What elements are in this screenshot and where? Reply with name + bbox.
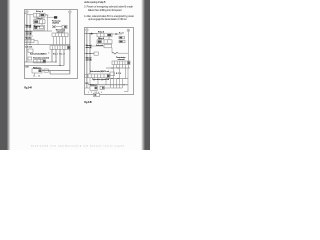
- wire: [112, 33, 122, 35]
- schematic 1 frame: [25, 10, 78, 79]
- svg-text:solenoid: solenoid: [57, 32, 65, 34]
- junction node: [56, 62, 57, 63]
- junction node: [118, 78, 119, 79]
- wire: [106, 78, 128, 80]
- wire: [27, 14, 33, 16]
- wire stub below box B: [34, 73, 36, 75]
- svg-text:26 - 30: 26 - 30: [33, 75, 40, 77]
- junction node: [118, 68, 119, 69]
- wire: [85, 33, 98, 35]
- resistor R2: [119, 36, 124, 39]
- wire relayB-ECU: [35, 24, 42, 25]
- relay C: [100, 86, 104, 89]
- connector J3: [25, 39, 34, 42]
- svg-text:?: ?: [48, 53, 49, 55]
- junction node: [112, 68, 113, 69]
- relay B coil block: [34, 21, 38, 23]
- svg-text:valve (A): valve (A): [86, 46, 92, 49]
- diode D2: [91, 33, 94, 35]
- junction node: [90, 53, 91, 54]
- relay B: [97, 40, 112, 44]
- relay A coil block: [41, 14, 45, 16]
- svg-text:Kickdown: Kickdown: [90, 85, 97, 87]
- coil L1: [112, 52, 118, 54]
- ECU inner block: [34, 26, 37, 29]
- wire: [29, 15, 31, 45]
- solenoid valve box: [90, 86, 98, 90]
- junction node: [56, 17, 57, 18]
- ECU U1: [34, 25, 45, 30]
- junction blob: [54, 16, 57, 18]
- diode D3: [116, 33, 119, 35]
- svg-text:Relay A: Relay A: [98, 31, 105, 34]
- right dark margin band: [141, 0, 150, 150]
- terminal center dot: [69, 11, 72, 14]
- relay A: [34, 13, 46, 17]
- wire grid lower right: [111, 68, 129, 92]
- connector J1b: [50, 46, 70, 50]
- wire: [89, 54, 91, 75]
- wire: [89, 34, 91, 54]
- aux box: [85, 74, 88, 77]
- terminal center dot: [86, 29, 89, 32]
- wire coil to right rail: [112, 48, 128, 53]
- terminal + (battery positive): [26, 11, 29, 14]
- solenoid box: [104, 44, 112, 48]
- sensor box: [94, 52, 98, 55]
- relay C inner: [102, 87, 104, 89]
- svg-text:valve (B): valve (B): [86, 59, 92, 61]
- wire relayA2-relayB2: [100, 37, 110, 40]
- svg-text:Fig. 2-44: Fig. 2-44: [24, 86, 32, 89]
- svg-text:Transmission control unit: Transmission control unit: [33, 57, 49, 60]
- wire relayB2-solenoid: [106, 43, 110, 46]
- switch S2: [28, 57, 32, 60]
- relay B: [34, 20, 46, 24]
- svg-text:Relay B: Relay B: [37, 18, 44, 20]
- left dark margin band: [0, 0, 11, 150]
- svg-text:up to engage the transmission: up to engage the transmission in OD rev.: [88, 17, 127, 21]
- svg-text:Solenoid valve (B) ECU unit: Solenoid valve (B) ECU unit: [90, 70, 109, 73]
- connector J1: [52, 33, 68, 37]
- terminal center dot: [26, 11, 29, 14]
- relay B coil block: [98, 40, 102, 42]
- svg-text:failure then shifting into 3rd: failure then shifting into 3rd speed: [88, 8, 122, 12]
- svg-text:Neutral sw: Neutral sw: [25, 37, 32, 40]
- svg-text:Solenoid valve (B) ECU: Solenoid valve (B) ECU: [30, 54, 47, 56]
- junction node: [112, 78, 113, 79]
- svg-text:Downloaded from www.Manualslib: Downloaded from www.Manualslib.com manua…: [31, 145, 125, 147]
- svg-text:Relay A: Relay A: [36, 10, 44, 13]
- connector J5 end cell: [107, 75, 109, 78]
- connector J5: [88, 74, 110, 78]
- svg-text:1 2 3 4 5: 1 2 3 4 5: [88, 92, 102, 94]
- relay A coil block: [107, 34, 111, 36]
- svg-text:ECU: ECU: [116, 73, 122, 75]
- ECU box U2: [110, 72, 115, 76]
- svg-text:Kickdown sw.: Kickdown sw.: [33, 67, 42, 69]
- wire: [45, 15, 54, 17]
- solenoid valve B inner: [39, 69, 42, 72]
- wire: [86, 31, 88, 88]
- svg-text:Engine: Engine: [34, 26, 40, 28]
- wire relay A right down: [45, 15, 48, 31]
- wire solenoid feed: [90, 45, 104, 47]
- pump box hanging on bottom border: [94, 93, 100, 96]
- diode D1: [52, 25, 55, 28]
- svg-text:2-3 shift: 2-3 shift: [25, 46, 32, 49]
- solenoid valve B: [32, 69, 42, 73]
- resistor R1: [62, 25, 67, 28]
- solenoid valve C: [44, 69, 48, 72]
- wire: [25, 49, 57, 62]
- wire box row stub: [34, 41, 38, 45]
- svg-text:Solenoid: Solenoid: [96, 45, 103, 47]
- wire: [54, 37, 66, 45]
- schematic 2 frame: [85, 28, 134, 95]
- svg-text:valve (B): valve (B): [25, 33, 32, 35]
- connector J1b end cell: [68, 46, 70, 49]
- relay A: [97, 33, 112, 37]
- svg-text:Fuel: Fuel: [119, 32, 125, 34]
- wire: [25, 35, 34, 37]
- svg-text:Relay B: Relay B: [98, 38, 105, 40]
- switch S1: [28, 49, 33, 52]
- svg-text:valve (A): valve (A): [25, 26, 31, 29]
- junction node: [124, 84, 125, 85]
- connector J4: [34, 60, 46, 63]
- wire: [25, 49, 65, 65]
- wire: [85, 53, 95, 55]
- wire: [106, 67, 130, 69]
- svg-text:Transmission control unit: Transmission control unit: [92, 78, 109, 81]
- wire: [85, 87, 111, 89]
- junction node: [60, 65, 61, 66]
- wire diode to R1: [56, 27, 65, 33]
- svg-text:solenoid: solenoid: [118, 59, 126, 61]
- solenoid valve box inner: [95, 87, 97, 89]
- wire: [25, 13, 27, 62]
- junction node: [90, 33, 91, 34]
- wire: [42, 13, 70, 74]
- svg-text:via the opening of relay B: via the opening of relay B: [84, 0, 106, 4]
- junction node: [86, 53, 87, 54]
- connector J4 end cell: [43, 60, 46, 62]
- wire: [114, 32, 129, 79]
- wire: [88, 84, 128, 86]
- wire J5 pins down: [90, 78, 106, 85]
- terminal center dot: [127, 29, 130, 32]
- connector J2: [112, 61, 130, 65]
- svg-text:relay ECU: relay ECU: [52, 22, 60, 24]
- wire relayA-relayB: [35, 17, 44, 19]
- terminal -: [127, 29, 130, 32]
- wire: [25, 30, 53, 32]
- ECU inner block 2: [40, 26, 44, 29]
- svg-text:Fig. 2-45: Fig. 2-45: [84, 101, 92, 104]
- terminal - (battery negative): [69, 11, 72, 14]
- junction node: [30, 44, 31, 45]
- wire: [25, 44, 71, 46]
- connector J2 end cell: [128, 62, 130, 64]
- resistor R3: [119, 40, 125, 43]
- svg-text:No.1 No.2: No.1 No.2: [53, 54, 65, 56]
- terminal +: [86, 29, 89, 32]
